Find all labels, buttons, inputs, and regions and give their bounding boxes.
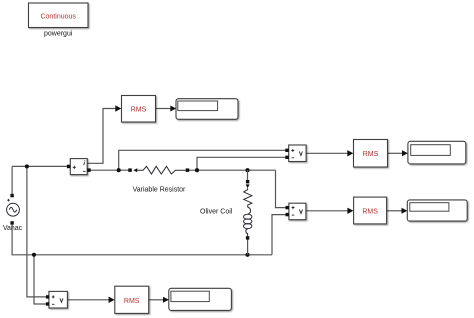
wire coil branch top	[247, 170, 249, 180]
display D4	[169, 288, 232, 310]
RMS3	[354, 197, 387, 224]
variable resistor R1	[128, 166, 189, 174]
RMS4	[115, 286, 149, 313]
wire up to V2 minus	[272, 215, 286, 255]
wire source bottom to return	[12, 223, 272, 255]
node junction coil bottom	[245, 253, 249, 257]
arrowhead into RMS3	[347, 208, 353, 214]
RMS2	[354, 140, 388, 168]
wire resistor to coil node	[189, 169, 276, 171]
svg-text:RMS: RMS	[124, 298, 140, 305]
node junction B	[195, 168, 199, 172]
svg-text:RMS: RMS	[363, 151, 379, 158]
wire V1 to RMS2	[306, 152, 348, 154]
current sensor U1	[67, 159, 91, 175]
arrowhead into D1	[170, 106, 176, 112]
wire coil branch bottom	[247, 240, 249, 255]
arrowhead into RMS2	[347, 150, 353, 156]
wire main horizontal after sensor	[89, 169, 129, 171]
node junction bottom left	[32, 253, 36, 257]
wire branch down to V3 minus	[34, 255, 47, 304]
wire RMS4 to Display4	[149, 299, 164, 301]
svg-text:powergui: powergui	[44, 30, 73, 37]
powergui block	[29, 3, 89, 28]
voltmeter V3	[46, 291, 68, 308]
wire source top vertical	[11, 166, 13, 195]
svg-text:Vanac: Vanac	[3, 225, 23, 232]
arrowhead into RMS1	[115, 105, 121, 111]
node junction coil top	[245, 168, 249, 172]
wire RMS1 to Display1	[156, 108, 172, 110]
svg-text:RMS: RMS	[362, 209, 378, 216]
display D3	[407, 200, 467, 221]
voltmeter V2	[286, 203, 306, 220]
wire down to V2 plus	[276, 170, 286, 207]
wire branch up to V1 plus	[119, 150, 286, 170]
voltmeter V1	[285, 145, 306, 162]
node junction A	[117, 168, 121, 172]
svg-text:Continuous: Continuous	[40, 13, 76, 20]
wire branch down to voltmeter V3 plus	[27, 166, 47, 297]
Oliver Coil L1	[244, 180, 252, 240]
arrowhead into D4	[163, 297, 169, 303]
wire V2 to RMS3	[306, 210, 348, 212]
wire i-signal to RMS1	[87, 109, 116, 164]
display D1	[176, 99, 238, 120]
node junction top	[25, 164, 29, 168]
wire V3 to RMS4	[67, 299, 109, 301]
arrowhead into D2	[402, 150, 408, 156]
wire branch up to V1 minus	[197, 157, 286, 170]
svg-text:RMS: RMS	[131, 107, 147, 114]
AC source Vanac	[7, 194, 20, 225]
arrowhead into D3	[402, 208, 408, 214]
wire RMS2 to Display2	[388, 152, 403, 154]
display D2	[408, 141, 466, 164]
svg-text:Variable Resistor: Variable Resistor	[133, 187, 186, 194]
svg-text:Oliver Coil: Oliver Coil	[200, 208, 233, 215]
wire RMS3 to Display3	[387, 210, 402, 212]
wire top horizontal to current sensor	[12, 165, 67, 167]
arrowhead into RMS4	[109, 297, 115, 303]
RMS1	[122, 96, 156, 123]
